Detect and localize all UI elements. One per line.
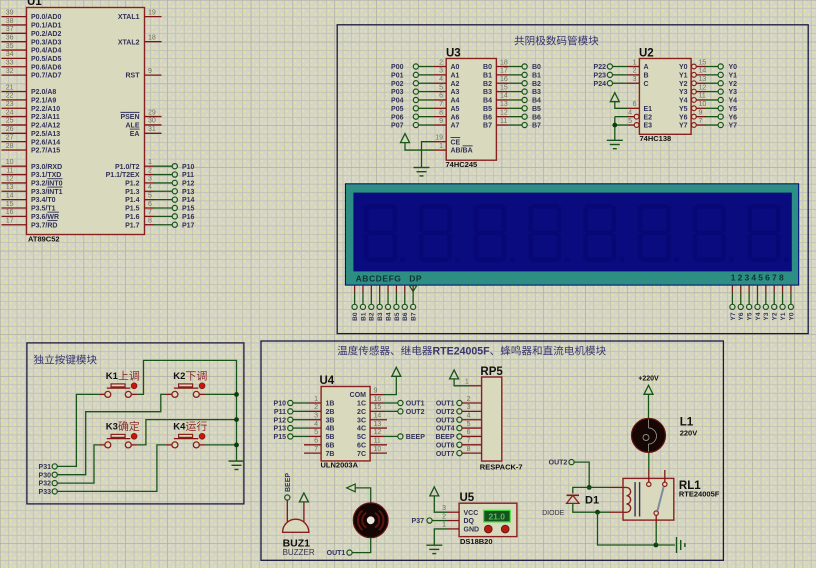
svg-text:P01: P01 bbox=[391, 72, 404, 79]
U1 pin 28 P2.7/A15 bbox=[2, 143, 61, 155]
svg-text:P1.1/T2EX: P1.1/T2EX bbox=[106, 172, 140, 179]
svg-text:P15: P15 bbox=[274, 434, 287, 441]
svg-text:B5: B5 bbox=[394, 312, 401, 321]
svg-text:Y0: Y0 bbox=[729, 64, 738, 71]
U4 pin 13 4C bbox=[357, 421, 387, 433]
U1 pin 37 P0.2/AD2 bbox=[2, 26, 62, 38]
svg-text:OUT7: OUT7 bbox=[436, 451, 455, 458]
svg-text:Y3: Y3 bbox=[679, 89, 688, 96]
svg-text:P3.0/RXD: P3.0/RXD bbox=[31, 164, 62, 171]
svg-text:19: 19 bbox=[435, 135, 443, 142]
U1 pin 17 P3.7/RD bbox=[2, 218, 58, 230]
svg-text:P1.5: P1.5 bbox=[125, 206, 140, 213]
svg-text:A7: A7 bbox=[451, 123, 460, 130]
U2 pin 12 Y3 with terminal Y3 bbox=[679, 84, 737, 96]
label 220V bbox=[680, 428, 698, 437]
svg-text:U4: U4 bbox=[320, 375, 335, 387]
U2 pin 7 Y7 with terminal Y7 bbox=[679, 118, 737, 130]
lamp L1 220V bbox=[632, 418, 666, 452]
label U1 bbox=[27, 0, 42, 8]
svg-text:P2.7/A15: P2.7/A15 bbox=[31, 148, 60, 155]
svg-text:8: 8 bbox=[148, 218, 152, 225]
U1 pin 10 P3.0/RXD bbox=[2, 159, 63, 171]
svg-text:Y4: Y4 bbox=[729, 98, 738, 105]
svg-text:P2.4/A12: P2.4/A12 bbox=[31, 123, 60, 130]
svg-text:9: 9 bbox=[439, 118, 443, 125]
svg-text:Y4: Y4 bbox=[755, 312, 762, 320]
U1 pin 22 P2.1/A9 bbox=[2, 93, 57, 105]
svg-text:3: 3 bbox=[442, 505, 446, 512]
svg-text:10: 10 bbox=[374, 446, 382, 453]
svg-text:4: 4 bbox=[628, 109, 632, 116]
U3 pin 14 B4 with terminal B4 bbox=[483, 93, 541, 105]
svg-text:5: 5 bbox=[467, 421, 471, 428]
svg-text:P3.2/INT0: P3.2/INT0 bbox=[31, 181, 63, 188]
svg-text:B3: B3 bbox=[483, 89, 492, 96]
svg-text:P06: P06 bbox=[391, 114, 404, 121]
resistor pack RP5 RESPACK-7 body bbox=[482, 377, 502, 461]
8-digit 7-segment display block bbox=[345, 184, 798, 285]
svg-text:4: 4 bbox=[439, 76, 443, 83]
svg-text:P2.1/A9: P2.1/A9 bbox=[31, 97, 56, 104]
svg-text:B0: B0 bbox=[352, 312, 359, 321]
svg-text:RST: RST bbox=[126, 73, 141, 80]
svg-text:OUT1: OUT1 bbox=[406, 401, 425, 408]
svg-text:B4: B4 bbox=[532, 98, 541, 105]
svg-text:P07: P07 bbox=[391, 123, 404, 130]
svg-text:6: 6 bbox=[314, 438, 318, 445]
svg-text:Y0: Y0 bbox=[679, 64, 688, 71]
display segment pin C to terminal B2 bbox=[369, 285, 376, 321]
U2 pin 9 Y6 with terminal Y6 bbox=[679, 109, 737, 121]
terminal OUT2 bbox=[549, 460, 574, 467]
svg-text:9: 9 bbox=[374, 387, 378, 394]
display digit pin 4 to terminal Y4 bbox=[755, 285, 762, 320]
svg-text:VCC: VCC bbox=[464, 510, 479, 517]
svg-text:P2.2/A10: P2.2/A10 bbox=[31, 106, 60, 113]
svg-text:P1.7: P1.7 bbox=[125, 222, 140, 229]
svg-text:1: 1 bbox=[439, 143, 443, 150]
svg-text:K3: K3 bbox=[106, 422, 118, 433]
ground bus vertical bbox=[236, 394, 238, 461]
svg-text:ALE: ALE bbox=[126, 123, 140, 130]
ground for U2 enables bbox=[607, 140, 623, 148]
U3 pin 17 B1 with terminal B1 bbox=[483, 68, 541, 80]
svg-text:7C: 7C bbox=[357, 451, 366, 458]
U3 pin 3 A1 with terminal P01 bbox=[391, 68, 460, 80]
svg-text:P1.2: P1.2 bbox=[125, 181, 140, 188]
wire K4 right to bus bbox=[205, 444, 236, 446]
junction coil bottom bbox=[595, 510, 600, 515]
svg-text:P13: P13 bbox=[182, 189, 195, 196]
U1 pin 31 EA bbox=[130, 126, 162, 138]
svg-text:D1: D1 bbox=[585, 495, 599, 507]
svg-text:3B: 3B bbox=[326, 417, 335, 424]
U5 temperature readout display 21.0 bbox=[484, 510, 511, 522]
svg-text:Y5: Y5 bbox=[679, 106, 688, 113]
power arrow for U3 bbox=[401, 134, 410, 143]
svg-text:10: 10 bbox=[699, 101, 707, 108]
svg-text:P0.4/AD4: P0.4/AD4 bbox=[31, 48, 61, 55]
svg-text:K4: K4 bbox=[173, 422, 186, 433]
U5 indicator dot right bbox=[501, 525, 509, 533]
RP5 pin 4 with terminal OUT3 bbox=[436, 413, 482, 425]
svg-text:8: 8 bbox=[439, 109, 443, 116]
svg-text:OUT1: OUT1 bbox=[327, 550, 346, 557]
svg-text:B5: B5 bbox=[483, 106, 492, 113]
wire P33 to K4 bbox=[57, 445, 166, 492]
U3 pin 19 CE wire to ground bbox=[422, 135, 461, 168]
svg-text:2: 2 bbox=[633, 68, 637, 75]
U1 pin 36 P0.3/AD3 bbox=[2, 34, 62, 46]
junction K4-bus bbox=[234, 443, 239, 448]
U4 pin 3 3B with terminal P12 bbox=[274, 413, 335, 425]
label K2 bbox=[173, 371, 206, 382]
svg-text:P16: P16 bbox=[182, 214, 195, 221]
svg-text:CE: CE bbox=[451, 139, 461, 146]
svg-text:P37: P37 bbox=[412, 518, 425, 525]
U3 pin 1 AB/BA wire to power bbox=[405, 143, 473, 155]
U1 pin 39 P0.0/AD0 bbox=[2, 9, 62, 21]
junction relay common at rail bbox=[654, 543, 659, 548]
svg-text:BUZZER: BUZZER bbox=[283, 548, 315, 557]
wire motor bottom to terminal OUT1 bbox=[327, 538, 371, 558]
svg-text:A1: A1 bbox=[451, 72, 460, 79]
display segment pin B to terminal B1 bbox=[360, 285, 367, 321]
wire E2-E3 to ground bbox=[614, 117, 616, 141]
U4 pin 5 5B with terminal P15 bbox=[274, 429, 335, 441]
svg-text:A0: A0 bbox=[451, 64, 460, 71]
svg-text:Y7: Y7 bbox=[730, 312, 737, 320]
U3 pin 5 A3 with terminal P03 bbox=[391, 84, 460, 96]
U2 pin 6 E1 wire to power bbox=[615, 101, 652, 113]
svg-text:33: 33 bbox=[6, 60, 14, 67]
label RESPACK-7 bbox=[480, 462, 523, 471]
terminal P33 bbox=[39, 489, 58, 496]
U5 pin 3 VCC wire to power bbox=[434, 496, 478, 517]
U1 pin 8 P1.7 to terminal P17 bbox=[125, 218, 194, 230]
svg-text:P31: P31 bbox=[39, 464, 52, 471]
svg-text:18: 18 bbox=[148, 34, 156, 41]
label 74HC245 bbox=[446, 160, 478, 169]
U4 pin 14 3C bbox=[357, 413, 387, 425]
junction at E3 bbox=[612, 123, 617, 128]
diode D1 flyback bbox=[567, 495, 579, 503]
svg-text:OUT1: OUT1 bbox=[436, 401, 455, 408]
U4 pin 1 1B with terminal P10 bbox=[274, 396, 335, 408]
svg-text:RP5: RP5 bbox=[480, 366, 503, 378]
svg-text:23: 23 bbox=[6, 101, 14, 108]
U1 pin 1 P1.0/T2 to terminal P10 bbox=[115, 159, 195, 171]
svg-text:4: 4 bbox=[314, 421, 318, 428]
svg-text:P12: P12 bbox=[182, 181, 195, 188]
svg-text:Y5: Y5 bbox=[747, 312, 754, 320]
svg-text:B1: B1 bbox=[532, 72, 541, 79]
svg-text:35: 35 bbox=[6, 43, 14, 50]
U3 pin 9 A7 with terminal P07 bbox=[391, 118, 460, 130]
svg-text:5C: 5C bbox=[357, 434, 366, 441]
svg-text:12: 12 bbox=[699, 84, 707, 91]
RP5 pin 5 with terminal OUT4 bbox=[436, 421, 482, 433]
svg-text:P0.3/AD3: P0.3/AD3 bbox=[31, 39, 61, 46]
U4 pin 11 6C bbox=[357, 438, 387, 450]
power arrow +220V bbox=[638, 376, 659, 395]
svg-text:A4: A4 bbox=[451, 98, 460, 105]
U2 pin 13 Y2 with terminal Y2 bbox=[679, 76, 737, 88]
U3 pin 12 B6 with terminal B6 bbox=[483, 109, 541, 121]
svg-text:P2.3/A11: P2.3/A11 bbox=[31, 114, 60, 121]
svg-text:Y2: Y2 bbox=[729, 81, 738, 88]
terminal P31 bbox=[39, 464, 58, 471]
svg-text:2: 2 bbox=[442, 513, 446, 520]
wire P30 to K2 bbox=[57, 394, 166, 474]
U3 pin 11 B7 with terminal B7 bbox=[483, 118, 541, 130]
junction K2-bus bbox=[234, 392, 239, 397]
svg-text:P30: P30 bbox=[39, 472, 52, 479]
svg-text:OUT4: OUT4 bbox=[436, 426, 455, 433]
svg-text:1: 1 bbox=[442, 522, 446, 529]
U2 pin 4 E2 with inversion bubble bbox=[615, 109, 652, 121]
svg-text:2C: 2C bbox=[357, 409, 366, 416]
display segment pin G to terminal B6 bbox=[402, 285, 409, 321]
decoder U2 74HC138 body bbox=[639, 59, 691, 135]
svg-text:L1: L1 bbox=[680, 417, 694, 429]
svg-text:1: 1 bbox=[314, 396, 318, 403]
terminal P30 bbox=[39, 472, 58, 479]
temperature sensor U5 DS18B20 body bbox=[459, 503, 517, 536]
push button K3 bbox=[99, 433, 138, 448]
svg-text:P1.3: P1.3 bbox=[125, 189, 140, 196]
svg-text:B6: B6 bbox=[402, 312, 409, 321]
svg-text:Y2: Y2 bbox=[772, 312, 779, 320]
svg-text:P10: P10 bbox=[182, 164, 195, 171]
U1 pin 34 P0.5/AD5 bbox=[2, 51, 62, 63]
U2 pin 10 Y5 with terminal Y5 bbox=[679, 101, 737, 113]
display digit pin 5 to terminal Y3 bbox=[763, 285, 770, 320]
wire K3 right to bus bbox=[137, 420, 236, 445]
label DS18B20 bbox=[460, 537, 493, 546]
RP5 pin 1 wire to power bbox=[454, 378, 482, 386]
U1 pin 13 P3.3/INT1 bbox=[2, 184, 63, 196]
buzzer BUZ1 dome bbox=[283, 519, 309, 532]
svg-text:P0.6/AD6: P0.6/AD6 bbox=[31, 64, 61, 71]
svg-text:P3.7/RD: P3.7/RD bbox=[31, 222, 57, 229]
U1 pin 14 P3.4/T0 bbox=[2, 192, 56, 204]
U4 pin 7 7B bbox=[304, 446, 334, 458]
svg-text:15: 15 bbox=[699, 59, 707, 66]
U1 pin 21 P2.0/A8 bbox=[2, 84, 57, 96]
label ULN2003A bbox=[321, 461, 359, 470]
U1 pin 27 P2.6/A14 bbox=[2, 134, 61, 146]
U3 pin 6 A4 with terminal P04 bbox=[391, 93, 460, 105]
svg-text:P3.6/WR: P3.6/WR bbox=[31, 214, 59, 221]
display segment pin E to terminal B4 bbox=[385, 285, 392, 321]
svg-text:P32: P32 bbox=[39, 481, 52, 488]
display digit pin 3 to terminal Y5 bbox=[747, 285, 754, 320]
svg-text:P0.2/AD2: P0.2/AD2 bbox=[31, 31, 61, 38]
svg-text:19: 19 bbox=[148, 9, 156, 16]
svg-text:2: 2 bbox=[314, 404, 318, 411]
wire lamp to relay bbox=[648, 452, 650, 482]
buffer U3 74HC245 body bbox=[446, 59, 496, 161]
svg-text:Y3: Y3 bbox=[763, 312, 770, 320]
svg-text:Y6: Y6 bbox=[679, 114, 688, 121]
wire P31 to K1 bbox=[57, 394, 99, 466]
U5 pin 1 GND wire to ground bbox=[434, 522, 479, 545]
svg-text:DQ: DQ bbox=[464, 518, 475, 525]
svg-text:18: 18 bbox=[500, 59, 508, 66]
U4 pin 10 7C bbox=[357, 446, 387, 458]
svg-text:AT89C52: AT89C52 bbox=[28, 235, 60, 244]
svg-text:P14: P14 bbox=[182, 197, 195, 204]
svg-text:28: 28 bbox=[6, 143, 14, 150]
U3 pin 4 A2 with terminal P02 bbox=[391, 76, 460, 88]
svg-text:30: 30 bbox=[148, 118, 156, 125]
svg-text:P02: P02 bbox=[391, 81, 404, 88]
svg-text:12: 12 bbox=[374, 429, 382, 436]
wire K2 right to bus bbox=[205, 393, 236, 395]
svg-text:P15: P15 bbox=[182, 206, 195, 213]
svg-text:BEEP: BEEP bbox=[406, 434, 425, 441]
svg-text:37: 37 bbox=[6, 26, 14, 33]
push button K1 bbox=[99, 383, 138, 398]
label RTE24005F bbox=[679, 490, 720, 499]
svg-text:Y6: Y6 bbox=[738, 312, 745, 320]
svg-text:21: 21 bbox=[6, 84, 14, 91]
svg-text:P1.6: P1.6 bbox=[125, 214, 140, 221]
U1 pin 18 XTAL2 bbox=[118, 34, 162, 46]
svg-text:14: 14 bbox=[699, 68, 707, 75]
display segment pin A to terminal B0 bbox=[352, 285, 359, 321]
svg-text:2B: 2B bbox=[326, 409, 335, 416]
svg-text:Y1: Y1 bbox=[729, 72, 738, 79]
svg-text:B6: B6 bbox=[532, 114, 541, 121]
label 74HC138 bbox=[640, 134, 672, 143]
svg-text:EA: EA bbox=[130, 131, 140, 138]
U1 pin 5 P1.4 to terminal P14 bbox=[125, 192, 194, 204]
svg-text:220V: 220V bbox=[680, 428, 698, 437]
svg-text:15: 15 bbox=[374, 404, 382, 411]
ground for U3 CE bbox=[414, 168, 430, 176]
svg-text:16: 16 bbox=[6, 209, 14, 216]
label RL1 bbox=[679, 480, 701, 492]
svg-text:8: 8 bbox=[467, 446, 471, 453]
wire diode anode to coil bottom bbox=[573, 503, 623, 512]
svg-text:6: 6 bbox=[467, 429, 471, 436]
U1 pin 2 P1.1/T2EX to terminal P11 bbox=[106, 167, 195, 179]
svg-text:B4: B4 bbox=[483, 98, 492, 105]
U2 pin 5 E3 with inversion bubble bbox=[615, 118, 652, 130]
svg-text:RTE24005F: RTE24005F bbox=[679, 490, 720, 499]
svg-text:17: 17 bbox=[6, 218, 14, 225]
svg-text:P3.4/T0: P3.4/T0 bbox=[31, 197, 56, 204]
svg-text:P23: P23 bbox=[594, 72, 607, 79]
U3 pin 7 A5 with terminal P05 bbox=[391, 101, 460, 113]
svg-text:A2: A2 bbox=[451, 81, 460, 88]
label K3 bbox=[106, 421, 140, 433]
svg-text:P11: P11 bbox=[274, 409, 286, 416]
U4 pin 12 5C with terminal BEEP bbox=[357, 429, 425, 441]
wire K1 right to ground bus bbox=[137, 360, 236, 394]
U1 pin 6 P1.5 to terminal P15 bbox=[125, 201, 194, 213]
RP5 pin 8 with terminal OUT7 bbox=[436, 446, 482, 458]
svg-text:1C: 1C bbox=[357, 401, 366, 408]
svg-text:31: 31 bbox=[148, 126, 156, 133]
svg-text:E2: E2 bbox=[644, 114, 653, 121]
buzzer BUZ1 pins and terminal BEEP bbox=[285, 473, 304, 526]
U1 pin 7 P1.6 to terminal P16 bbox=[125, 209, 194, 221]
svg-text:5: 5 bbox=[148, 192, 152, 199]
U1 pin 11 P3.1/TXD bbox=[2, 167, 62, 179]
svg-text:6: 6 bbox=[148, 201, 152, 208]
display digit pin 7 to terminal Y1 bbox=[780, 285, 787, 320]
svg-text:5: 5 bbox=[628, 118, 632, 125]
svg-text:Y6: Y6 bbox=[729, 114, 738, 121]
svg-text:Y1: Y1 bbox=[679, 72, 688, 79]
ground for relay rail bbox=[677, 537, 685, 553]
svg-text:P0.0/AD0: P0.0/AD0 bbox=[31, 14, 61, 21]
svg-text:P12: P12 bbox=[274, 417, 287, 424]
svg-text:Y4: Y4 bbox=[679, 98, 688, 105]
U1 pin 23 P2.2/A10 bbox=[2, 101, 61, 113]
svg-text:7: 7 bbox=[467, 438, 471, 445]
svg-text:11: 11 bbox=[500, 118, 507, 125]
svg-text:1: 1 bbox=[148, 159, 152, 166]
svg-text:13: 13 bbox=[374, 421, 382, 428]
svg-text:OUT3: OUT3 bbox=[436, 417, 455, 424]
wire coil top pin bbox=[589, 486, 623, 488]
svg-text:Y2: Y2 bbox=[679, 81, 688, 88]
svg-text:B7: B7 bbox=[483, 123, 492, 130]
wire P32 to K3 bbox=[57, 445, 99, 483]
RP5 pin 3 with terminal OUT2 bbox=[436, 404, 482, 416]
svg-text:1: 1 bbox=[465, 378, 469, 385]
svg-text:ABCDEFG: ABCDEFG bbox=[356, 274, 402, 284]
svg-text:A5: A5 bbox=[451, 106, 460, 113]
svg-text:DS18B20: DS18B20 bbox=[460, 537, 493, 546]
wire junction to diode cathode bbox=[573, 487, 589, 493]
svg-text:P05: P05 bbox=[391, 106, 404, 113]
svg-text:7: 7 bbox=[439, 101, 443, 108]
U1 pin 35 P0.4/AD4 bbox=[2, 43, 62, 55]
svg-text:Y0: Y0 bbox=[788, 312, 795, 320]
svg-text:Y3: Y3 bbox=[729, 89, 738, 96]
svg-text:OUT2: OUT2 bbox=[549, 460, 568, 467]
svg-text:22: 22 bbox=[6, 93, 14, 100]
svg-text:P2.6/A14: P2.6/A14 bbox=[31, 139, 60, 146]
svg-text:RESPACK-7: RESPACK-7 bbox=[480, 462, 523, 471]
wire motor top to left arrow bbox=[347, 484, 371, 503]
wire relay common to rail bbox=[655, 524, 657, 545]
svg-text:25: 25 bbox=[6, 118, 14, 125]
svg-text:3: 3 bbox=[439, 68, 443, 75]
svg-text:2: 2 bbox=[148, 167, 152, 174]
U1 pin 38 P0.1/AD1 bbox=[2, 18, 62, 30]
RP5 pin 6 with terminal BEEP bbox=[435, 429, 481, 441]
svg-text:B3: B3 bbox=[532, 89, 541, 96]
svg-text:P13: P13 bbox=[274, 426, 287, 433]
push button K4 bbox=[166, 433, 205, 448]
ground for U5 bbox=[426, 545, 442, 553]
svg-text:K1: K1 bbox=[106, 371, 119, 382]
label BUZ1 bbox=[283, 538, 311, 550]
svg-text:+220V: +220V bbox=[638, 376, 659, 383]
svg-text:3: 3 bbox=[314, 413, 318, 420]
label BUZZER bbox=[283, 548, 315, 557]
U3 pin 16 B2 with terminal B2 bbox=[483, 76, 541, 88]
svg-text:RTE24005F: RTE24005F bbox=[433, 346, 491, 358]
wire junction down to ground rail bbox=[598, 512, 675, 545]
